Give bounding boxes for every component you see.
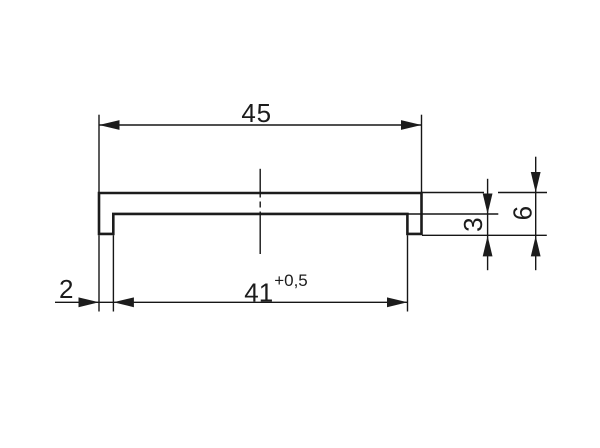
svg-text:41: 41 bbox=[244, 278, 273, 308]
svg-text:2: 2 bbox=[59, 274, 73, 304]
svg-text:3: 3 bbox=[458, 217, 488, 231]
svg-text:6: 6 bbox=[507, 206, 537, 220]
svg-text:+0,5: +0,5 bbox=[274, 271, 308, 290]
svg-text:45: 45 bbox=[241, 98, 272, 128]
